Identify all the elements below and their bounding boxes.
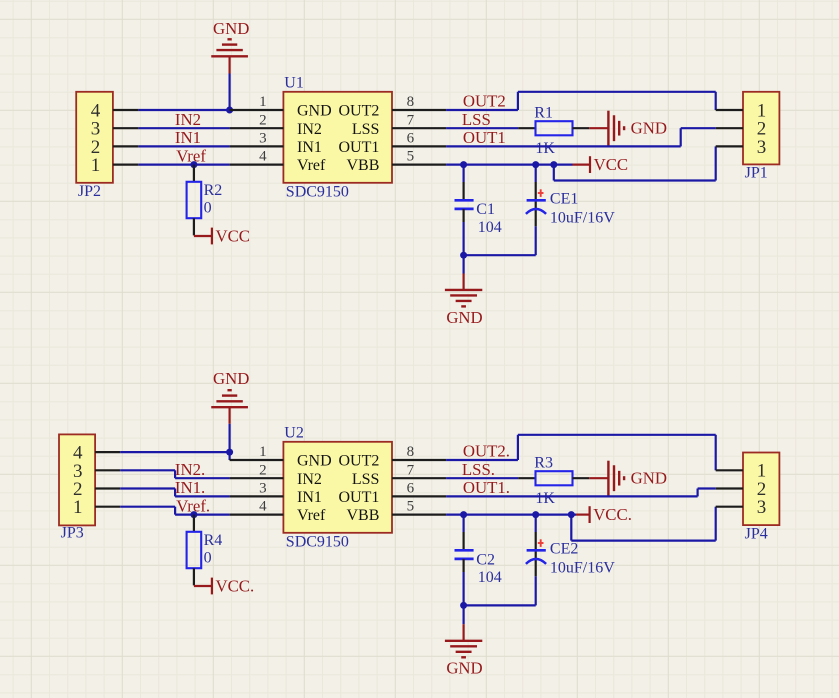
svg-text:OUT2.: OUT2. — [463, 442, 510, 461]
svg-text:GND: GND — [297, 453, 332, 470]
junction at C2 bottom — [460, 602, 467, 609]
svg-text:R1: R1 — [534, 105, 553, 122]
JP3 pin 1 lead — [95, 506, 120, 508]
wire C2/CE2 bottoms to ground — [464, 604, 536, 606]
wire JP2.3 to U1.2 (net IN2) — [139, 127, 230, 129]
wire U2.5 net VBB/VCC. — [446, 507, 716, 541]
svg-text:SDC9150: SDC9150 — [286, 533, 349, 550]
power port VCC below R2 — [194, 226, 250, 245]
svg-text:VCC.: VCC. — [593, 505, 632, 524]
U2 pin 3 lead — [230, 495, 284, 497]
svg-text:4: 4 — [259, 499, 267, 515]
connector JP4 — [743, 453, 779, 526]
wire C1/CE1 bottoms to ground — [464, 254, 536, 256]
svg-text:VCC: VCC — [216, 226, 251, 245]
svg-text:IN1: IN1 — [297, 489, 322, 506]
svg-text:GND: GND — [213, 19, 249, 38]
connector JP3 — [59, 434, 95, 525]
JP4 pin 2 lead — [716, 487, 743, 489]
svg-text:LSS.: LSS. — [462, 460, 495, 479]
JP1 pin 1 lead — [716, 109, 743, 111]
ground symbol GND right of R1 (sideways) — [608, 111, 667, 146]
IC U1 SDC9150 — [283, 92, 392, 183]
svg-text:2: 2 — [259, 462, 267, 478]
wire JP3.3 to U2.2 (net IN2.) — [120, 470, 229, 478]
JP1 pin 3 lead — [716, 145, 743, 147]
ground symbol (GND, pointing down) at x=463.6 — [445, 290, 483, 327]
U1 pin 1 lead — [230, 109, 284, 111]
svg-text:1: 1 — [73, 497, 83, 518]
svg-text:2: 2 — [259, 112, 267, 128]
U1 pin 6 lead — [392, 145, 446, 147]
U1 pin 5 lead — [392, 164, 446, 166]
U2 pin 4 lead — [230, 513, 284, 515]
svg-text:7: 7 — [407, 112, 415, 128]
wire U1.6 net OUT1 — [446, 128, 716, 146]
JP3 pin 4 lead — [95, 451, 120, 453]
junction at CE1 tap — [532, 161, 539, 168]
svg-text:GND: GND — [446, 308, 482, 327]
capacitor C1 — [455, 165, 474, 256]
svg-text:6: 6 — [407, 131, 415, 147]
U2 pin 2 lead — [230, 477, 284, 479]
wire JP3.2 to U2.3 (net IN1.) — [120, 489, 229, 497]
svg-text:R2: R2 — [204, 182, 223, 199]
svg-text:3: 3 — [259, 131, 267, 147]
capacitor C2 — [455, 515, 474, 606]
power port VCC. below R4 — [194, 576, 254, 595]
JP2 pin 4 lead — [113, 109, 139, 111]
JP2 pin 3 lead — [113, 127, 139, 129]
svg-text:GND: GND — [213, 369, 249, 388]
U1 pin 8 lead — [392, 109, 446, 111]
U2 pin 1 lead — [230, 459, 284, 461]
svg-text:OUT2: OUT2 — [339, 453, 380, 470]
wire JP2.2 to U1.3 (net IN1) — [139, 145, 230, 147]
svg-text:JP1: JP1 — [745, 165, 768, 182]
resistor R1 — [518, 121, 589, 135]
U2 pin 5 lead — [392, 513, 446, 515]
U2 pin 8 lead — [392, 459, 446, 461]
svg-text:U2: U2 — [284, 425, 304, 442]
wire: GND stem (red part) bottom circuit — [229, 407, 231, 424]
svg-text:OUT2: OUT2 — [339, 103, 380, 120]
svg-text:IN1: IN1 — [297, 139, 322, 156]
svg-text:IN2.: IN2. — [175, 460, 205, 479]
JP2 pin 2 lead — [113, 145, 139, 147]
svg-text:C1: C1 — [476, 201, 495, 218]
wire: GND stem vertical down to pin-1 net — [229, 74, 231, 111]
svg-text:VBB: VBB — [346, 157, 379, 174]
svg-text:LSS: LSS — [352, 121, 380, 138]
junction at R2 tap — [190, 161, 197, 168]
svg-text:104: 104 — [478, 569, 502, 586]
svg-text:1K: 1K — [535, 140, 555, 157]
svg-text:CE1: CE1 — [550, 190, 578, 207]
wire R1 to ground (red) — [589, 127, 608, 129]
U2 pin 6 lead — [392, 495, 446, 497]
wire JP3.1 to U2.4 (net Vref.) — [120, 507, 229, 515]
resistor R3 — [518, 471, 589, 485]
svg-text:5: 5 — [407, 499, 415, 515]
JP2 pin 1 lead — [113, 164, 139, 166]
junction at JP1.3 branch — [550, 161, 557, 168]
wire U1.8 net OUT2 — [446, 92, 716, 110]
JP1 pin 2 lead — [716, 127, 743, 129]
svg-text:104: 104 — [478, 219, 502, 236]
resistor R2 — [187, 165, 202, 236]
svg-text:VCC: VCC — [594, 155, 629, 174]
power port VCC. right — [576, 505, 632, 524]
svg-text:JP3: JP3 — [61, 524, 84, 541]
svg-text:GND: GND — [631, 118, 667, 137]
junction at GND stem / JP3.4 — [226, 449, 233, 456]
wire U1.5 net VBB/VCC — [446, 146, 716, 180]
svg-text:8: 8 — [407, 444, 415, 460]
ground stem (red) bottom — [463, 624, 465, 641]
junction at CE2 tap — [532, 511, 539, 518]
svg-text:1: 1 — [259, 444, 267, 460]
wire: GND stem vertical down to JP3 pin-4 net — [229, 424, 231, 452]
svg-text:JP2: JP2 — [78, 183, 101, 200]
capacitor CE2 (polarized) — [526, 515, 546, 606]
JP4 pin 3 lead — [716, 506, 743, 508]
svg-text:LSS: LSS — [352, 471, 380, 488]
wire JP2.1 to U1.4 (net Vref) — [139, 164, 230, 166]
IC U2 SDC9150 — [283, 442, 392, 533]
svg-text:GND: GND — [446, 659, 482, 678]
svg-text:VBB: VBB — [346, 507, 379, 524]
U2 pin 7 lead — [392, 477, 446, 479]
svg-text:IN1.: IN1. — [175, 478, 205, 497]
svg-text:10uF/16V: 10uF/16V — [550, 209, 615, 226]
svg-text:3: 3 — [757, 137, 767, 158]
JP3 pin 3 lead — [95, 469, 120, 471]
ground symbol (GND, pointing down) at x=463.6 — [445, 641, 483, 678]
svg-text:8: 8 — [407, 94, 415, 110]
svg-text:U1: U1 — [284, 75, 304, 92]
svg-text:OUT1.: OUT1. — [463, 478, 510, 497]
ground symbol GND top-left (net of U1 pin 1) — [211, 19, 249, 57]
svg-text:OUT2: OUT2 — [463, 92, 506, 111]
svg-text:5: 5 — [407, 149, 415, 165]
wire JP2.4 to U1.1 — [139, 109, 230, 111]
wire R3 to ground (red) — [589, 477, 608, 479]
plus sign of CE2 — [538, 539, 544, 547]
wire U2.6 net OUT1. — [446, 489, 716, 497]
svg-text:GND: GND — [297, 103, 332, 120]
junction at C1 tap — [460, 161, 467, 168]
svg-text:LSS: LSS — [462, 110, 491, 129]
junction at GND stem / U1 pin 1 — [226, 107, 233, 114]
svg-text:3: 3 — [757, 497, 767, 518]
svg-text:OUT1: OUT1 — [463, 128, 506, 147]
ground symbol GND right of R3 (sideways) — [608, 461, 667, 496]
svg-text:R4: R4 — [204, 532, 223, 549]
svg-text:IN2: IN2 — [297, 121, 322, 138]
svg-text:C2: C2 — [476, 551, 495, 568]
svg-text:IN2: IN2 — [297, 471, 322, 488]
capacitor CE1 (polarized) — [526, 165, 546, 256]
power port VCC right — [573, 155, 629, 174]
junction at C2 tap — [460, 511, 467, 518]
svg-text:1K: 1K — [535, 490, 555, 507]
svg-text:GND: GND — [631, 468, 667, 487]
wire ground stem bottom — [463, 605, 465, 624]
JP4 pin 1 lead — [716, 469, 743, 471]
svg-text:4: 4 — [259, 149, 267, 165]
svg-text:1: 1 — [91, 155, 101, 176]
svg-text:6: 6 — [407, 481, 415, 497]
svg-text:OUT1: OUT1 — [339, 489, 380, 506]
wire ground stem — [463, 255, 465, 273]
svg-text:SDC9150: SDC9150 — [286, 183, 349, 200]
svg-text:CE2: CE2 — [550, 540, 578, 557]
wire U2.7 net LSS. — [446, 477, 518, 479]
wire JP3.4 to U2.1 — [120, 452, 229, 460]
svg-text:IN1: IN1 — [175, 128, 201, 147]
ground symbol GND bottom-left (net of U2 pin 1) — [211, 369, 249, 407]
U1 pin 7 lead — [392, 127, 446, 129]
plus sign of CE1 — [538, 189, 544, 197]
U1 pin 4 lead — [230, 164, 284, 166]
connector JP2 — [76, 92, 113, 183]
svg-text:Vref: Vref — [297, 157, 326, 174]
wire U1.7 net LSS — [446, 127, 518, 129]
junction at R4 tap — [190, 511, 197, 518]
svg-text:10uF/16V: 10uF/16V — [550, 559, 615, 576]
wire U2.8 net OUT2. — [446, 435, 716, 471]
junction at C1 bottom — [460, 252, 467, 259]
U1 pin 3 lead — [230, 145, 284, 147]
svg-text:Vref: Vref — [297, 507, 326, 524]
svg-text:7: 7 — [407, 462, 415, 478]
svg-text:R3: R3 — [534, 455, 553, 472]
svg-text:0: 0 — [204, 549, 212, 566]
svg-text:1: 1 — [259, 94, 267, 110]
U1 pin 2 lead — [230, 127, 284, 129]
svg-text:OUT1: OUT1 — [339, 139, 380, 156]
svg-text:JP4: JP4 — [745, 525, 768, 542]
wire: GND stem (red part) — [229, 56, 231, 73]
svg-text:3: 3 — [259, 481, 267, 497]
svg-text:VCC.: VCC. — [216, 576, 255, 595]
svg-text:0: 0 — [204, 199, 212, 216]
connector JP1 — [743, 92, 779, 165]
ground stem (red) — [463, 274, 465, 290]
JP3 pin 2 lead — [95, 487, 120, 489]
resistor R4 — [187, 515, 202, 586]
junction at JP4.3 branch — [568, 511, 575, 518]
svg-text:IN2: IN2 — [175, 110, 201, 129]
